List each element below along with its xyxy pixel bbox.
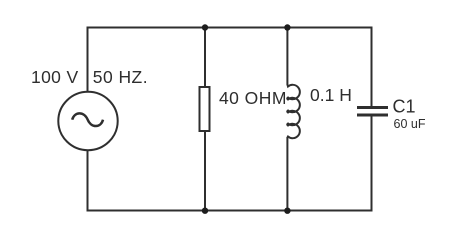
capacitor C1 bottom plate bbox=[357, 114, 388, 117]
wire bottom horizontal bbox=[87, 210, 373, 212]
junction dot bottom resistor node bbox=[202, 208, 208, 214]
wire top horizontal bbox=[87, 27, 373, 29]
wire capacitor bottom lead bbox=[371, 116, 373, 212]
source V1 AC circle bbox=[58, 92, 117, 150]
svg-text:40 OHM: 40 OHM bbox=[219, 88, 287, 108]
wire left upper segment bbox=[87, 27, 89, 93]
wire left lower segment bbox=[87, 150, 89, 212]
svg-text:C1: C1 bbox=[393, 97, 416, 117]
svg-text:60 uF: 60 uF bbox=[394, 117, 426, 131]
wire resistor top lead bbox=[204, 28, 206, 89]
junction dot top inductor node bbox=[284, 24, 290, 30]
inductor L1 coil bbox=[287, 85, 300, 139]
wire resistor bottom lead bbox=[204, 130, 206, 211]
wire inductor bottom lead bbox=[286, 137, 288, 211]
svg-text:50 HZ.: 50 HZ. bbox=[93, 67, 148, 87]
resistor R1 body bbox=[200, 87, 210, 131]
wire inductor top lead bbox=[286, 28, 288, 86]
source V1 sine symbol bbox=[72, 113, 103, 126]
svg-text:0.1 H: 0.1 H bbox=[310, 85, 352, 105]
wire capacitor top lead bbox=[371, 27, 373, 107]
junction dot top resistor node bbox=[202, 24, 208, 30]
junction dot bottom inductor node bbox=[284, 208, 290, 214]
svg-text:100 V: 100 V bbox=[31, 67, 78, 87]
capacitor C1 top plate bbox=[357, 106, 388, 109]
